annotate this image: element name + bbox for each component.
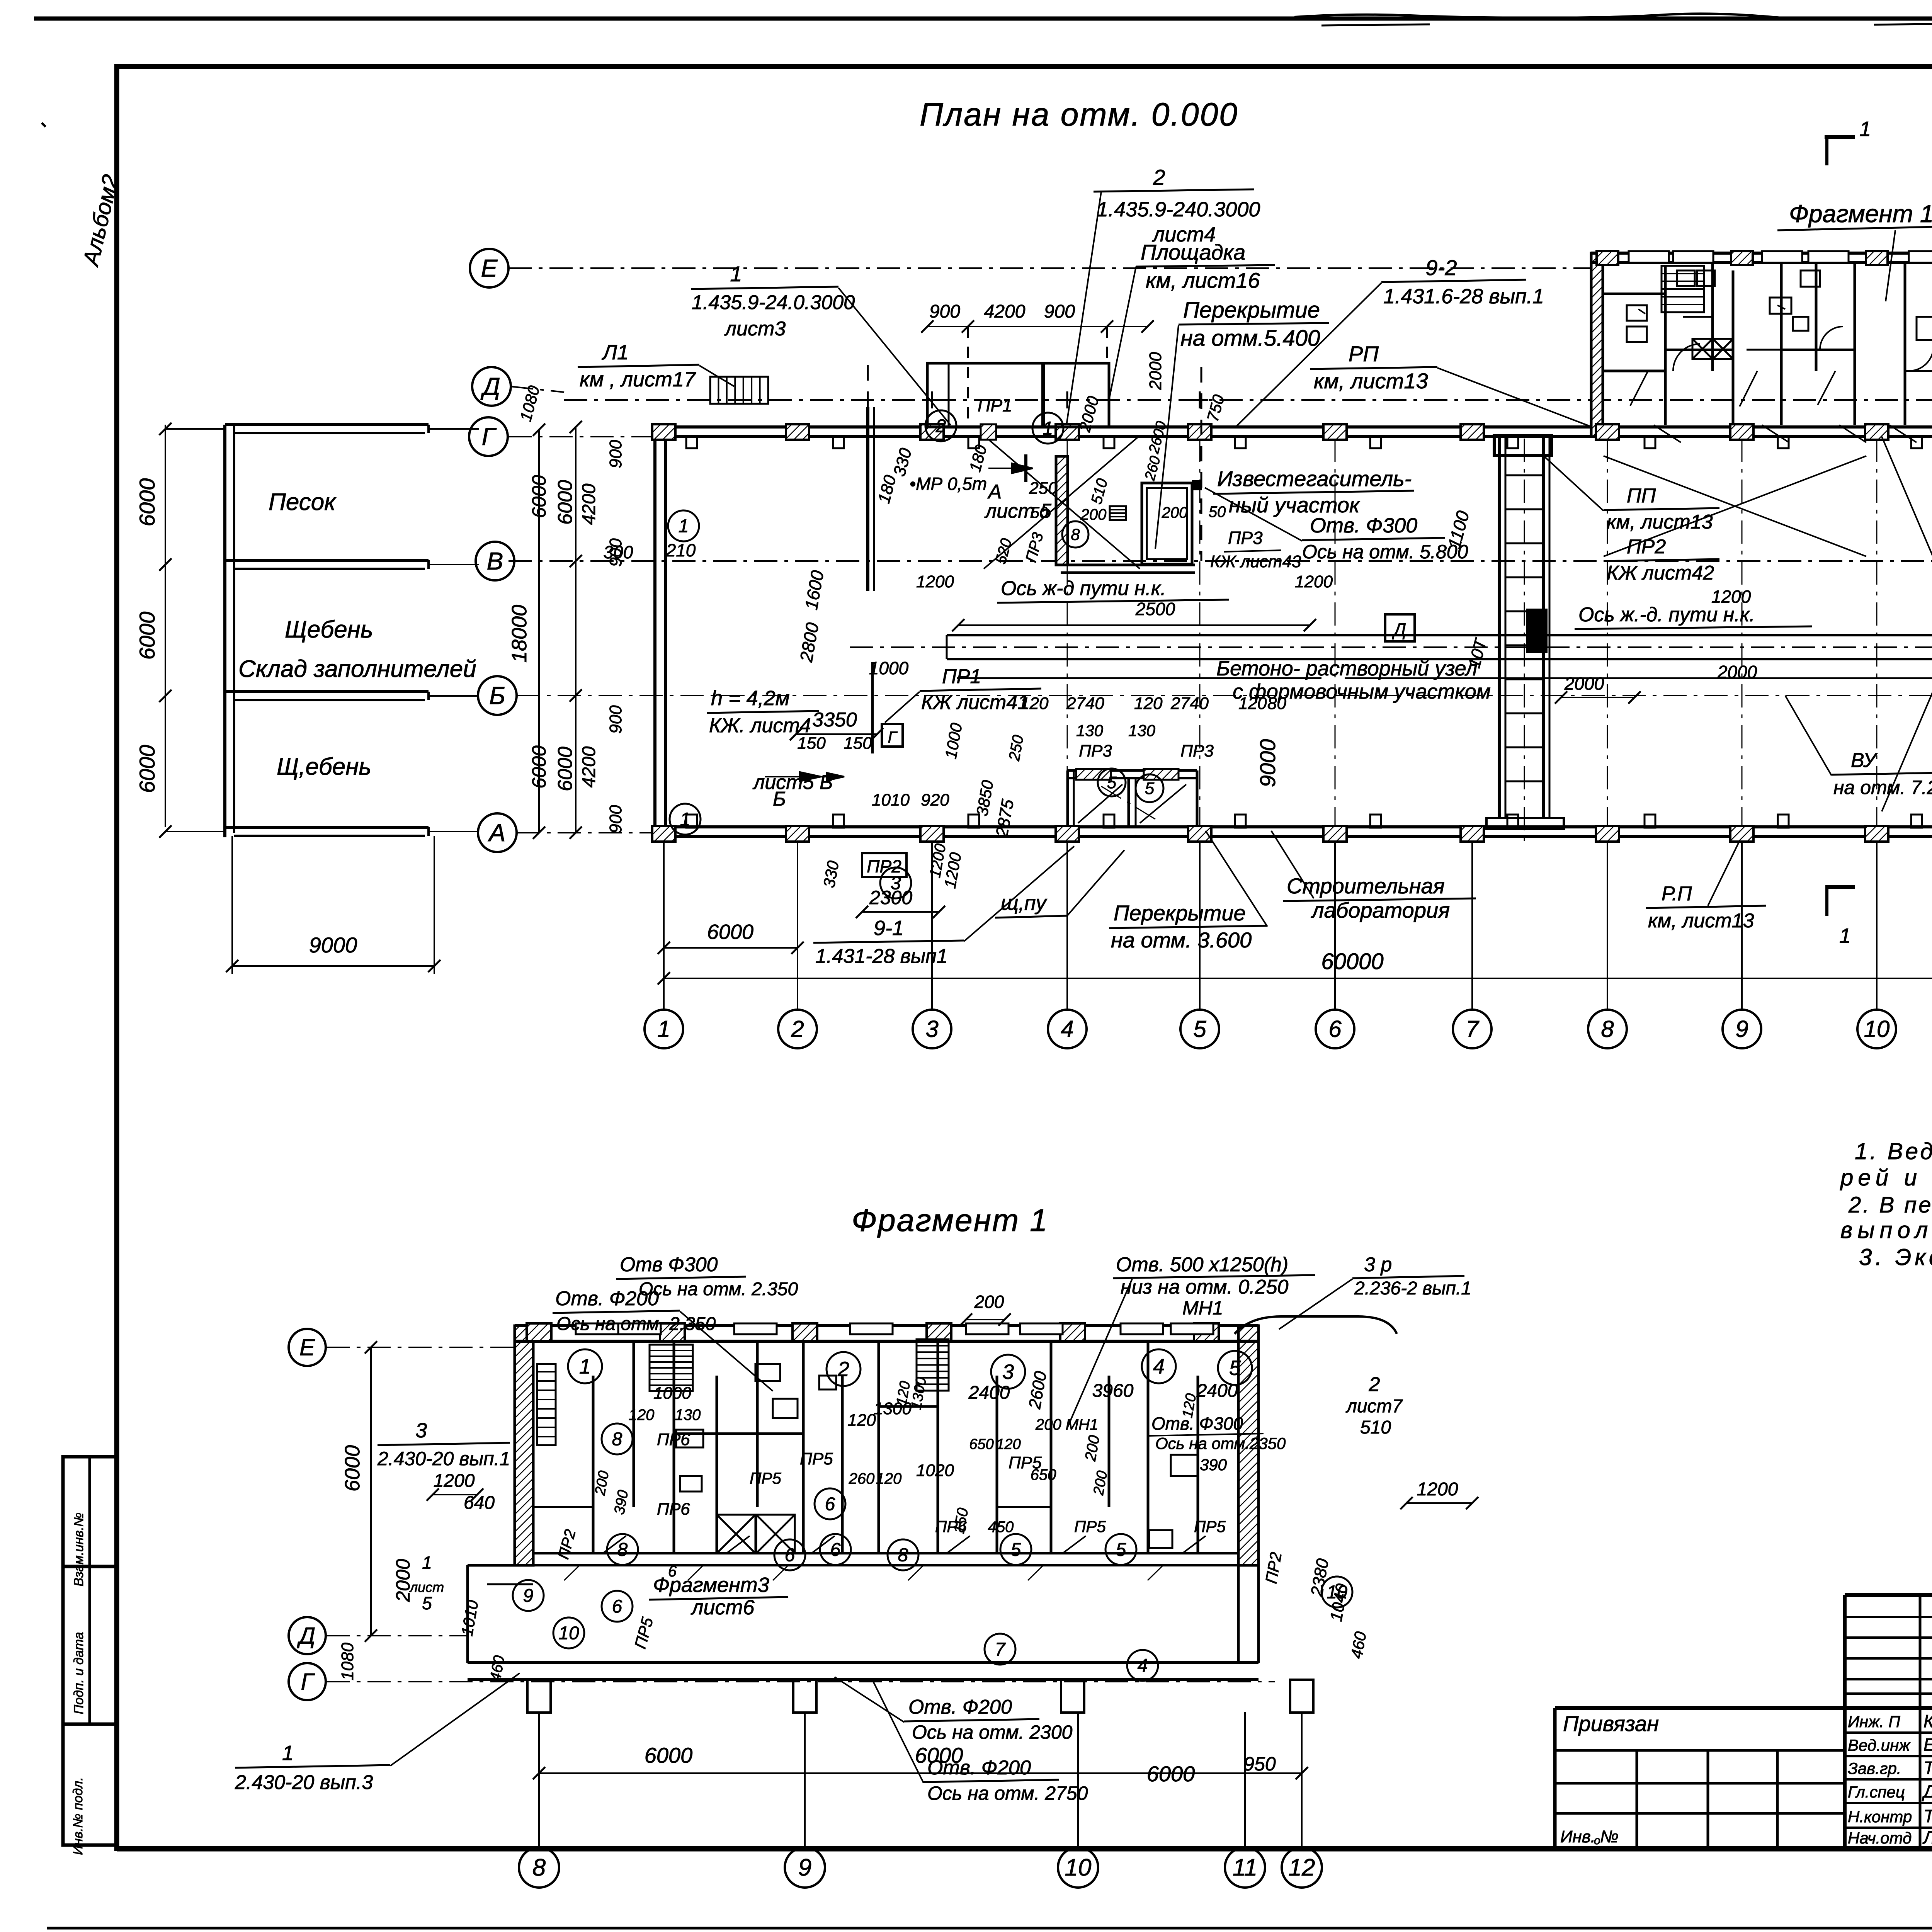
svg-text:План на отм. 0.000: План на отм. 0.000 — [920, 96, 1238, 133]
svg-text:Е: Е — [299, 1334, 315, 1360]
svg-text:Ось ж-д пути н.к.: Ось ж-д пути н.к. — [1001, 577, 1166, 600]
svg-text:5: 5 — [422, 1593, 432, 1613]
svg-text:2: 2 — [1369, 1373, 1380, 1396]
svg-text:Отв. Ф300: Отв. Ф300 — [1310, 514, 1417, 537]
svg-text:Привязан: Привязан — [1563, 1711, 1659, 1736]
svg-text:1: 1 — [1839, 924, 1851, 947]
svg-text:2: 2 — [791, 1016, 804, 1042]
svg-text:6000: 6000 — [135, 612, 159, 660]
svg-text:Гл.спец: Гл.спец — [1848, 1783, 1905, 1801]
svg-text:5: 5 — [1229, 1356, 1241, 1379]
svg-text:КЖ лист43: КЖ лист43 — [1210, 552, 1301, 571]
svg-text:2740: 2740 — [1066, 694, 1104, 713]
svg-text:Л1: Л1 — [602, 341, 629, 364]
svg-text:ПР3: ПР3 — [1079, 742, 1112, 760]
svg-text:6000: 6000 — [707, 920, 753, 944]
svg-text:200: 200 — [1162, 504, 1188, 521]
svg-text:ПР3: ПР3 — [1180, 742, 1214, 760]
svg-text:6000: 6000 — [645, 1743, 693, 1767]
svg-text:Взам.инв.№: Взам.инв.№ — [71, 1512, 86, 1586]
svg-text:Г: Г — [482, 423, 497, 451]
svg-text:Отв. 500 х1250(h): Отв. 500 х1250(h) — [1116, 1253, 1288, 1276]
svg-text:1000: 1000 — [869, 658, 909, 678]
svg-text:Куркина: Куркина — [1923, 1711, 1932, 1731]
svg-text:120: 120 — [876, 1470, 902, 1487]
svg-text:120: 120 — [1238, 694, 1267, 713]
svg-text:Б: Б — [489, 682, 505, 709]
svg-text:выполнить перемычку из 3Ф8А: выполнить перемычку из 3Ф8АI. — [1840, 1217, 1932, 1243]
svg-text:6000: 6000 — [554, 480, 577, 525]
svg-text:•МР 0,5т: •МР 0,5т — [910, 474, 987, 494]
svg-text:2000: 2000 — [1717, 662, 1757, 682]
svg-text:250: 250 — [1029, 479, 1058, 498]
svg-text:Егоров: Егоров — [1923, 1735, 1932, 1755]
svg-text:Перекрытие: Перекрытие — [1183, 298, 1320, 323]
svg-text:4: 4 — [1061, 1016, 1073, 1042]
svg-text:Подп. и дата: Подп. и дата — [71, 1632, 86, 1714]
svg-text:Инж. П: Инж. П — [1848, 1713, 1900, 1731]
svg-text:200: 200 — [974, 1292, 1004, 1312]
svg-text:км, лист13: км, лист13 — [1607, 511, 1713, 533]
svg-text:Щ,ебень: Щ,ебень — [277, 753, 371, 780]
svg-text:130: 130 — [675, 1406, 701, 1423]
svg-text:1: 1 — [579, 1355, 591, 1378]
svg-text:120: 120 — [629, 1406, 655, 1423]
svg-text:6000: 6000 — [1147, 1762, 1195, 1786]
svg-text:КЖ лист42: КЖ лист42 — [1607, 562, 1714, 584]
svg-text:510: 510 — [1360, 1417, 1391, 1438]
svg-text:150: 150 — [797, 734, 826, 753]
svg-text:на отм.5.400: на отм.5.400 — [1180, 326, 1320, 351]
svg-text:Фрагмент 1: Фрагмент 1 — [852, 1203, 1049, 1238]
svg-text:120: 120 — [1020, 694, 1049, 713]
svg-text:9000: 9000 — [309, 933, 357, 957]
svg-text:6: 6 — [785, 1545, 795, 1565]
svg-text:18000: 18000 — [508, 605, 531, 663]
svg-text:км , лист17: км , лист17 — [580, 368, 696, 391]
svg-text:Бетоно- растворный узел: Бетоно- растворный узел — [1216, 657, 1478, 680]
svg-text:2000: 2000 — [1564, 673, 1604, 694]
svg-text:Ось на отм.2350: Ось на отм.2350 — [1155, 1434, 1286, 1452]
svg-text:В: В — [487, 547, 503, 575]
svg-text:о: о — [1594, 1834, 1600, 1847]
svg-text:1020: 1020 — [916, 1461, 954, 1480]
svg-text:ПР1: ПР1 — [942, 665, 981, 688]
svg-text:640: 640 — [464, 1493, 495, 1513]
svg-text:h = 4,2м: h = 4,2м — [711, 687, 790, 710]
svg-text:8: 8 — [612, 1429, 622, 1449]
svg-text:6000: 6000 — [554, 747, 577, 791]
svg-text:120: 120 — [847, 1411, 876, 1430]
svg-text:Щебень: Щебень — [285, 616, 373, 643]
svg-text:Склад заполнителей: Склад заполнителей — [238, 656, 476, 682]
svg-text:1: 1 — [680, 809, 690, 830]
svg-text:Трубникова: Трубникова — [1923, 1806, 1932, 1826]
svg-text:4200: 4200 — [579, 483, 599, 525]
svg-text:3. Экспликацию бытовых поме: 3. Экспликацию бытовых помещений см. лис… — [1859, 1244, 1932, 1270]
svg-text:9000: 9000 — [1255, 739, 1280, 787]
svg-text:1: 1 — [679, 516, 689, 536]
svg-text:9: 9 — [1735, 1016, 1748, 1042]
svg-text:Площадка: Площадка — [1141, 240, 1245, 264]
svg-text:3: 3 — [415, 1419, 427, 1442]
svg-text:Песок: Песок — [269, 489, 337, 515]
svg-text:6000: 6000 — [341, 1445, 364, 1492]
svg-text:ПР5: ПР5 — [750, 1469, 781, 1487]
svg-text:5: 5 — [1145, 779, 1155, 798]
svg-text:8: 8 — [532, 1854, 546, 1881]
svg-text:6000: 6000 — [528, 475, 550, 518]
svg-text:Н.контр: Н.контр — [1848, 1808, 1912, 1826]
svg-text:9: 9 — [798, 1854, 811, 1881]
svg-text:на отм. 3.600: на отм. 3.600 — [1111, 928, 1252, 952]
svg-text:2500: 2500 — [1135, 599, 1175, 619]
svg-text:щ,пу: щ,пу — [1001, 891, 1048, 915]
svg-text:Лебедев: Лебедев — [1922, 1827, 1932, 1847]
svg-text:Е: Е — [481, 254, 498, 282]
svg-text:6: 6 — [1328, 1016, 1342, 1042]
svg-text:2: 2 — [935, 416, 946, 436]
svg-text:130: 130 — [1128, 721, 1156, 740]
svg-text:1: 1 — [282, 1742, 294, 1765]
svg-text:50: 50 — [1209, 503, 1226, 520]
svg-text:8: 8 — [1601, 1016, 1614, 1042]
svg-text:8: 8 — [1071, 525, 1080, 543]
svg-text:1200: 1200 — [1417, 1479, 1458, 1500]
svg-text:9-2: 9-2 — [1426, 255, 1457, 280]
svg-text:лист7: лист7 — [1345, 1396, 1403, 1417]
svg-text:6: 6 — [668, 1563, 677, 1580]
svg-text:5: 5 — [1107, 773, 1117, 792]
svg-text:РП: РП — [1349, 342, 1379, 366]
svg-text:Перекрытие: Перекрытие — [1114, 901, 1246, 925]
svg-text:300: 300 — [604, 542, 633, 562]
svg-text:2. В перегородках δ = 120мм: 2. В перегородках δ = 120мм над проемами… — [1848, 1192, 1932, 1218]
svg-text:2: 2 — [1153, 165, 1165, 189]
svg-text:лаборатория: лаборатория — [1311, 898, 1450, 922]
svg-text:Д: Д — [297, 1622, 315, 1648]
svg-text:650: 650 — [969, 1436, 993, 1452]
svg-text:ПР5: ПР5 — [800, 1449, 833, 1468]
svg-text:920: 920 — [921, 791, 949, 810]
svg-text:390: 390 — [1200, 1456, 1227, 1474]
svg-text:3: 3 — [1002, 1360, 1014, 1383]
svg-text:650: 650 — [1031, 1466, 1056, 1483]
svg-text:1: 1 — [657, 1016, 670, 1042]
svg-text:ПР6: ПР6 — [657, 1430, 690, 1449]
svg-text:Отв. Ф200: Отв. Ф200 — [555, 1287, 659, 1310]
svg-text:11: 11 — [1233, 1854, 1257, 1881]
svg-text:Отв Ф300: Отв Ф300 — [620, 1253, 718, 1276]
svg-text:3960: 3960 — [1092, 1381, 1134, 1401]
svg-text:4: 4 — [1153, 1355, 1165, 1378]
svg-text:8: 8 — [898, 1545, 908, 1565]
svg-text:Известегаситель-: Известегаситель- — [1217, 466, 1412, 491]
svg-text:900: 900 — [606, 705, 625, 734]
svg-text:9: 9 — [523, 1585, 534, 1606]
svg-text:2400: 2400 — [968, 1383, 1010, 1403]
svg-text:Инв. №: Инв. № — [1560, 1827, 1619, 1846]
svg-text:900: 900 — [606, 440, 625, 468]
svg-text:900: 900 — [606, 805, 625, 833]
svg-text:3: 3 — [925, 1016, 938, 1042]
svg-text:4200: 4200 — [579, 746, 599, 787]
svg-text:ПР3: ПР3 — [1228, 528, 1263, 548]
svg-text:7: 7 — [1466, 1016, 1480, 1042]
svg-text:2400: 2400 — [1196, 1381, 1238, 1401]
svg-text:8: 8 — [617, 1539, 628, 1560]
svg-text:10: 10 — [558, 1623, 579, 1643]
svg-text:12: 12 — [1289, 1854, 1315, 1881]
svg-text:5: 5 — [1193, 1016, 1206, 1042]
svg-text:Ось на отм. 5.800: Ось на отм. 5.800 — [1302, 541, 1468, 563]
svg-text:ПР1: ПР1 — [978, 395, 1012, 415]
svg-text:6: 6 — [825, 1494, 835, 1514]
svg-text:лист3: лист3 — [724, 318, 786, 340]
svg-text:км, лист16: км, лист16 — [1146, 268, 1260, 293]
svg-text:6000: 6000 — [135, 745, 159, 793]
svg-text:60000: 60000 — [1321, 949, 1383, 974]
svg-text:ПР6: ПР6 — [935, 1517, 967, 1536]
svg-text:450: 450 — [988, 1519, 1014, 1536]
svg-text:7: 7 — [995, 1639, 1006, 1660]
svg-text:3350: 3350 — [812, 709, 857, 731]
svg-text:Р.П: Р.П — [1662, 883, 1692, 905]
svg-text:Трубникова: Трубникова — [1923, 1758, 1932, 1778]
svg-text:Г: Г — [301, 1668, 315, 1694]
svg-text:1200: 1200 — [1295, 572, 1333, 591]
svg-text:1.431-28 вып1: 1.431-28 вып1 — [815, 945, 948, 968]
svg-text:ПР5: ПР5 — [1074, 1517, 1106, 1536]
svg-text:900: 900 — [1044, 301, 1075, 322]
svg-text:Дыба: Дыба — [1922, 1781, 1932, 1801]
svg-text:Ось ж.-д. пути н.к.: Ось ж.-д. пути н.к. — [1578, 604, 1755, 626]
svg-text:200: 200 — [1080, 506, 1107, 523]
svg-text:150: 150 — [844, 734, 872, 753]
svg-text:900: 900 — [929, 301, 960, 322]
svg-text:Вед.инж: Вед.инж — [1848, 1736, 1911, 1754]
svg-text:ВУ: ВУ — [1851, 749, 1878, 772]
svg-text:км, лист13: км, лист13 — [1648, 910, 1754, 932]
svg-text:Нач.отд: Нач.отд — [1848, 1829, 1912, 1847]
svg-text:ный участок: ный участок — [1229, 493, 1361, 517]
svg-text:Отв. Ф300: Отв. Ф300 — [1151, 1413, 1243, 1434]
svg-text:КЖ лист41: КЖ лист41 — [921, 691, 1029, 714]
svg-text:200 МН1: 200 МН1 — [1035, 1416, 1098, 1433]
svg-text:9-1: 9-1 — [874, 917, 904, 940]
svg-text:Фрагмент 1: Фрагмент 1 — [1789, 200, 1932, 228]
svg-text:ПР2: ПР2 — [867, 856, 901, 876]
svg-text:1.431.6-28 вып.1: 1.431.6-28 вып.1 — [1383, 285, 1544, 308]
svg-text:Отв. Ф200: Отв. Ф200 — [908, 1696, 1012, 1718]
svg-text:Зав.гр.: Зав.гр. — [1848, 1759, 1901, 1777]
svg-text:на отм. 7.200: на отм. 7.200 — [1833, 777, 1932, 798]
svg-text:1.435.9-24.0.3000: 1.435.9-24.0.3000 — [692, 291, 855, 314]
svg-text:2000: 2000 — [1146, 352, 1165, 390]
svg-text:лист: лист — [409, 1579, 444, 1595]
svg-text:2: 2 — [837, 1357, 849, 1381]
svg-text:10: 10 — [1065, 1854, 1092, 1881]
svg-text:1200: 1200 — [916, 572, 954, 591]
svg-text:50: 50 — [1031, 504, 1048, 521]
svg-text:4200: 4200 — [984, 301, 1026, 322]
svg-text:2.430-20 вып.3: 2.430-20 вып.3 — [235, 1771, 373, 1794]
svg-text:1: 1 — [730, 262, 742, 286]
svg-text:2.236-2 вып.1: 2.236-2 вып.1 — [1354, 1278, 1471, 1299]
svg-text:260: 260 — [849, 1470, 875, 1487]
svg-text:км, лист13: км, лист13 — [1314, 369, 1428, 393]
svg-text:80: 80 — [1267, 694, 1286, 713]
svg-text:ПР5: ПР5 — [1194, 1517, 1226, 1536]
svg-text:ПП: ПП — [1627, 485, 1656, 507]
svg-text:120: 120 — [996, 1436, 1020, 1452]
svg-text:6: 6 — [830, 1539, 841, 1560]
svg-text:Ось на отм. 2750: Ось на отм. 2750 — [927, 1782, 1088, 1804]
svg-text:2.430-20 вып.1: 2.430-20 вып.1 — [377, 1448, 510, 1469]
svg-text:1.435.9-240.3000: 1.435.9-240.3000 — [1097, 198, 1260, 221]
svg-text:6000: 6000 — [528, 745, 550, 788]
svg-text:рей и перемычек см. листя: рей и перемычек см. листя. — [1840, 1165, 1932, 1190]
svg-text:10: 10 — [1864, 1016, 1890, 1042]
svg-text:ПР2: ПР2 — [1627, 536, 1666, 558]
svg-text:1: 1 — [422, 1553, 432, 1573]
svg-text:Инв.№ подл.: Инв.№ подл. — [71, 1777, 85, 1855]
svg-text:1: 1 — [1043, 418, 1053, 439]
svg-text:950: 950 — [1243, 1753, 1276, 1775]
svg-text:Г: Г — [888, 728, 898, 746]
svg-text:Ось на отм. 2.350: Ось на отм. 2.350 — [556, 1314, 716, 1334]
svg-text:2300: 2300 — [869, 887, 912, 908]
svg-text:4: 4 — [1138, 1655, 1148, 1676]
svg-text:120: 120 — [1134, 694, 1163, 713]
svg-text:А: А — [488, 819, 506, 847]
svg-text:1. Ведомости проемов ворот и: 1. Ведомости проемов ворот и дверей , сп… — [1855, 1138, 1932, 1164]
svg-text:1080: 1080 — [338, 1643, 357, 1680]
svg-text:лист5 В: лист5 В — [752, 771, 833, 794]
svg-text:1000: 1000 — [653, 1384, 691, 1403]
svg-text:6000: 6000 — [135, 478, 159, 527]
svg-text:низ на отм. 0.250: низ на отм. 0.250 — [1121, 1276, 1289, 1298]
svg-text:130: 130 — [1076, 721, 1104, 740]
svg-text:ПР6: ПР6 — [657, 1500, 690, 1519]
svg-text:2740: 2740 — [1170, 694, 1209, 713]
svg-text:5: 5 — [1011, 1539, 1021, 1560]
svg-text:1010: 1010 — [872, 791, 910, 810]
svg-text:210: 210 — [666, 540, 696, 560]
svg-text:1: 1 — [1859, 117, 1871, 141]
svg-text:Д: Д — [1392, 619, 1406, 639]
svg-text:5: 5 — [1116, 1539, 1126, 1560]
svg-text:Ось на отм. 2.350: Ось на отм. 2.350 — [639, 1279, 798, 1299]
svg-text:3 р: 3 р — [1364, 1253, 1392, 1276]
svg-text:6: 6 — [612, 1596, 622, 1617]
svg-text:1200: 1200 — [434, 1471, 475, 1491]
svg-text:Д: Д — [480, 372, 500, 400]
svg-text:МН1: МН1 — [1182, 1297, 1223, 1319]
svg-text:Отв. Ф200: Отв. Ф200 — [927, 1757, 1031, 1779]
svg-text:Ось на отм. 2300: Ось на отм. 2300 — [912, 1721, 1073, 1743]
